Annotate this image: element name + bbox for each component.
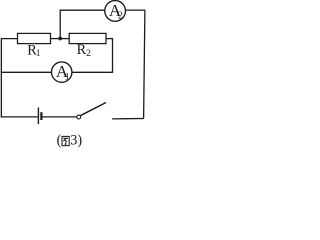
wire: riser from junction up to A2 branch	[59, 10, 61, 38]
resistor R2 (box symbol)	[69, 33, 106, 43]
wire: bottom-right horizontal (switch fixed terminal)	[112, 118, 144, 120]
svg-text:(: (	[57, 132, 62, 148]
wire: R2 right stub	[106, 38, 113, 40]
svg-text:A1: A1	[56, 62, 70, 83]
caption: hanzi "图" drawn as glyph paths	[62, 136, 69, 145]
node: junction of R1, R2 and A2 branch	[58, 37, 62, 41]
wire: A1 right horizontal to mid-right vertical	[72, 71, 113, 73]
wire: right vertical	[144, 10, 145, 119]
ammeter A1 (circle)	[52, 62, 72, 82]
svg-text:3): 3)	[70, 132, 82, 148]
wire: R1 right terminal to junction	[51, 38, 61, 40]
svg-text:R1: R1	[27, 42, 40, 59]
switch: blade (open position)	[81, 103, 107, 116]
wire: mid-right vertical (R2 right down to A1 right)	[112, 39, 114, 73]
wire: top-left horizontal from left vertical to R1	[1, 38, 18, 40]
wire: A2 right terminal to top-right corner	[126, 9, 146, 11]
resistor R1 (box symbol)	[18, 33, 51, 43]
wire: A1 left horizontal from left vertical	[1, 71, 52, 73]
wire: junction to R2 left terminal	[60, 38, 69, 40]
wire: battery to switch pivot	[42, 116, 76, 118]
wire: left vertical (battery positive up to R1/A1 node)	[0, 39, 2, 118]
wire: top horizontal to A2 left terminal	[60, 9, 105, 11]
wire: bottom-left horizontal to battery	[1, 116, 38, 118]
battery: long thin plate	[37, 108, 39, 125]
battery: short thick plate	[40, 112, 42, 120]
svg-text:A2: A2	[109, 1, 123, 22]
ammeter A2 (circle)	[105, 1, 126, 22]
svg-text:R2: R2	[77, 42, 92, 59]
switch: pivot contact (open circle)	[77, 115, 81, 119]
